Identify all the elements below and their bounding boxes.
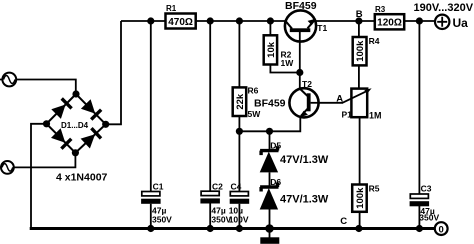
svg-text:100k: 100k	[355, 40, 366, 62]
svg-text:D1...D4: D1...D4	[61, 121, 89, 130]
wire: R3 output to +Ua terminal, C3 branch	[404, 21, 435, 229]
svg-text:R5: R5	[369, 184, 380, 194]
svg-text:C3: C3	[421, 184, 432, 194]
junction dot: bridge top node	[72, 90, 79, 97]
junction dot: output / C3 branch	[416, 17, 423, 24]
svg-text:D5: D5	[270, 140, 281, 150]
transistor T2 BF459 (error amp, collector top, emitter bottom, base right)	[289, 88, 318, 117]
svg-text:47V/1.3W: 47V/1.3W	[280, 194, 329, 206]
svg-text:Ua: Ua	[453, 16, 469, 30]
resistor R3 120R output	[375, 14, 404, 29]
wire: bridge left node down to bottom bus	[31, 124, 47, 229]
zener diode D5 47V/1.3W	[260, 146, 279, 172]
capacitor C1 47u/350V	[141, 192, 161, 204]
junction dot: node C	[355, 225, 362, 232]
zener diode D6 47V/1.3W	[260, 183, 279, 210]
diode D3 (left-to-bottom arm of bridge)	[51, 128, 71, 148]
junction dot: emitter wire / zener branch	[266, 128, 273, 135]
svg-text:120Ω: 120Ω	[377, 17, 402, 28]
junction dot: bottom bus / C1	[147, 225, 154, 232]
potentiometer P1 1M with wiper arrow from node A	[342, 88, 371, 117]
svg-text:190V...320V: 190V...320V	[414, 2, 474, 14]
wire: AC input 1 to bridge top node	[0, 80, 76, 95]
capacitor C3 47u/350V	[410, 194, 430, 206]
wire: bridge right node up to top bus	[106, 21, 121, 124]
capacitor C2 47u/350V	[200, 191, 220, 203]
wire: T2 emitter down and left to R6 bottom	[239, 117, 300, 132]
junction dot: top bus / R6 branch	[236, 17, 243, 24]
wire: node B chain R4-P1-R5 down to node C	[358, 21, 361, 229]
wire: T1 base to T2 collector	[299, 42, 301, 89]
capacitor C4 10u/100V	[230, 192, 250, 204]
svg-text:R1: R1	[166, 4, 177, 13]
resistor R5 100k	[352, 185, 367, 212]
svg-text:4 x1N4007: 4 x1N4007	[56, 172, 108, 184]
svg-text:C4: C4	[231, 181, 242, 191]
svg-text:1M: 1M	[369, 110, 382, 120]
svg-text:0: 0	[439, 224, 444, 235]
junction dot: bridge right node	[102, 121, 109, 128]
AC source 1 (transformer secondary top)	[2, 73, 16, 87]
junction dot: bottom bus / C4	[236, 225, 243, 232]
wire: AC input 2 to bridge bottom node	[0, 153, 75, 168]
svg-text:R6: R6	[248, 86, 259, 96]
wire: zener branch D5/D6 to bottom bus	[269, 131, 271, 228]
svg-text:C: C	[340, 216, 347, 227]
svg-text:BF459: BF459	[285, 0, 317, 12]
svg-text:A: A	[336, 93, 343, 104]
bridge rectifier D1...D4 diamond wires	[47, 94, 106, 153]
svg-text:C2: C2	[212, 181, 223, 191]
wire: T1 emitter to node B	[315, 20, 375, 22]
svg-text:22k: 22k	[235, 93, 246, 110]
wire: R2 top lead to bus	[269, 21, 271, 35]
junction dot: bottom bus / C3	[416, 225, 423, 232]
wire: R2 bottom lead to T1 base line	[270, 65, 299, 73]
svg-text:470Ω: 470Ω	[168, 17, 193, 28]
output terminal 0V	[435, 222, 448, 235]
junction dot: R6 bottom / emitter wire	[236, 128, 243, 135]
wire: R6 / C4 branch	[238, 21, 240, 229]
resistor R4 100k	[353, 37, 367, 65]
junction dot: R2 to T1 base	[296, 69, 303, 76]
wire: C2 branch from top bus to bottom bus	[209, 21, 211, 229]
wire: T2 base to potentiometer wiper	[319, 102, 343, 104]
svg-text:P1: P1	[342, 109, 353, 119]
svg-text:350V: 350V	[152, 214, 172, 224]
transistor T1 BF459 (series pass, collector left on bus, emitter right, base down)	[285, 10, 316, 41]
svg-text:BF459: BF459	[254, 97, 286, 109]
wire: bottom bus (0V rail)	[30, 227, 435, 230]
resistor R6 22k	[233, 87, 247, 116]
svg-text:5W: 5W	[248, 109, 262, 119]
svg-text:C1: C1	[153, 181, 164, 191]
svg-text:1W: 1W	[281, 58, 295, 68]
resistor R2 10k	[264, 35, 277, 64]
resistor R1 470R in top bus	[166, 14, 196, 29]
svg-text:350V: 350V	[419, 212, 439, 222]
diode D1 (left-to-top arm of bridge)	[51, 99, 71, 119]
svg-text:10k: 10k	[266, 41, 277, 58]
svg-text:R3: R3	[375, 5, 386, 14]
junction dot: top bus / R2 branch	[267, 17, 274, 24]
junction dot: bridge bottom node	[72, 149, 79, 156]
svg-text:100k: 100k	[355, 187, 366, 209]
svg-text:47V/1.3W: 47V/1.3W	[280, 154, 329, 166]
wire: top bus from bridge corner to T1 collector	[121, 20, 285, 22]
diode D2 (top-to-right arm of bridge)	[81, 99, 101, 119]
output terminal +Ua (190V...320V)	[435, 15, 449, 29]
junction dot at ground node	[265, 224, 274, 233]
wire: C1 branch from top bus to bottom bus	[150, 21, 152, 229]
junction dot: bridge left node	[43, 120, 50, 127]
junction dot: bottom bus / C2	[207, 225, 214, 232]
junction dot: node B	[355, 17, 362, 24]
diode D4 (bottom-to-right arm of bridge)	[81, 128, 101, 148]
svg-text:T1: T1	[317, 23, 327, 33]
svg-text:D6: D6	[270, 177, 281, 187]
svg-text:100V: 100V	[229, 214, 249, 224]
junction dot: top bus / C1 branch	[147, 17, 154, 24]
svg-text:T2: T2	[302, 79, 312, 89]
junction dot: top bus / C2 branch	[207, 17, 214, 24]
AC source 2 (transformer secondary bottom)	[1, 161, 14, 174]
svg-text:R4: R4	[369, 36, 380, 46]
ground (chassis) symbol below zener branch	[260, 229, 279, 244]
